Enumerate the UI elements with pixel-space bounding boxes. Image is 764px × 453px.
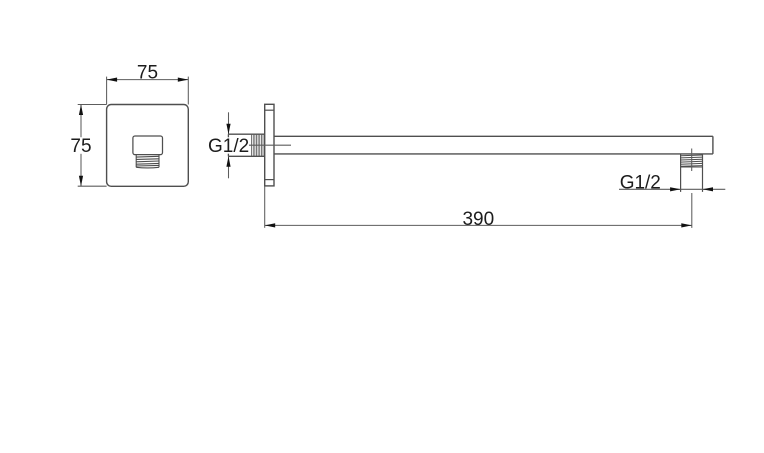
right G1/2 dimension line xyxy=(619,188,725,190)
top dimension arrows xyxy=(107,78,189,82)
svg-text:390: 390 xyxy=(462,209,494,230)
right G1/2 arrows xyxy=(670,187,713,191)
nipple thread hatch xyxy=(252,135,263,156)
side view flange plate xyxy=(265,104,274,186)
front view connector collar xyxy=(133,136,163,155)
white mask for left G1/2 text xyxy=(209,137,250,153)
left G1/2 dimension lines xyxy=(228,112,230,178)
svg-text:G1/2: G1/2 xyxy=(620,172,661,193)
left G1/2 arrows xyxy=(226,124,230,167)
centerline through nipple xyxy=(247,144,291,146)
nozzle threads xyxy=(681,155,703,167)
svg-text:G1/2: G1/2 xyxy=(208,136,249,157)
wall-side threaded nipple xyxy=(228,134,264,156)
top dimension line xyxy=(107,79,189,81)
nozzle centerline xyxy=(691,149,693,172)
outlet nozzle edges xyxy=(681,154,703,192)
front view square flange xyxy=(107,105,189,187)
390 dimension line xyxy=(265,224,692,226)
svg-text:75: 75 xyxy=(137,62,158,83)
left dimension line (gap for text) xyxy=(80,105,82,138)
svg-text:75: 75 xyxy=(70,136,91,157)
shower arm tube xyxy=(274,136,713,154)
left dimension extension lines xyxy=(78,105,107,187)
390 dimension arrows xyxy=(265,223,692,227)
flange corner lines xyxy=(265,110,274,179)
390 dimension extension lines xyxy=(265,186,692,228)
top dimension extension lines xyxy=(107,77,189,105)
left dimension arrows xyxy=(79,105,83,187)
front view connector thread xyxy=(136,155,159,168)
